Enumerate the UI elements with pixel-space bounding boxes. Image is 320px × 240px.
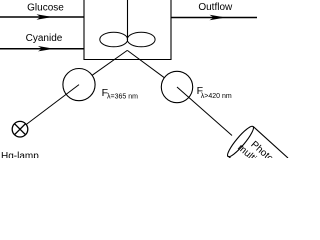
arrowhead glucose <box>37 14 53 19</box>
impeller blade left <box>100 32 128 47</box>
stirrer shaft <box>127 0 129 38</box>
filter F1 circle <box>63 69 95 101</box>
photomultiplier top edge <box>253 127 288 159</box>
Hg-lamp X stroke 1 <box>15 124 26 135</box>
wire outflow <box>171 17 257 19</box>
wire glucose inlet <box>0 16 84 18</box>
label Photomultiplier (rotated) <box>235 134 280 177</box>
wire cyanide inlet <box>0 48 84 50</box>
beam apex to filter F420 <box>127 50 164 77</box>
photomultiplier bottom edge <box>228 156 230 158</box>
beam apex to filter F365 <box>92 50 127 75</box>
svg-text:Outflow: Outflow <box>198 2 233 13</box>
arrowhead outflow <box>210 15 226 20</box>
filter F2 circle <box>161 71 192 102</box>
svg-text:Glucose: Glucose <box>27 3 64 14</box>
svg-text:λ=365 nm: λ=365 nm <box>107 94 138 101</box>
impeller blade right <box>127 32 155 47</box>
reactor vessel walls <box>84 0 171 60</box>
Hg-lamp X stroke 2 <box>15 124 26 135</box>
svg-text:λ>420 nm: λ>420 nm <box>201 93 232 100</box>
svg-text:Cyanide: Cyanide <box>26 33 63 44</box>
beam F365 center to Hg-lamp <box>26 85 79 125</box>
beam F420 center to photomultiplier <box>177 87 232 136</box>
svg-text:Hg-lamp: Hg-lamp <box>1 151 39 158</box>
arrowhead cyanide <box>38 46 54 51</box>
Hg-lamp circle <box>12 121 28 137</box>
photomultiplier end cap ellipse <box>225 124 257 159</box>
